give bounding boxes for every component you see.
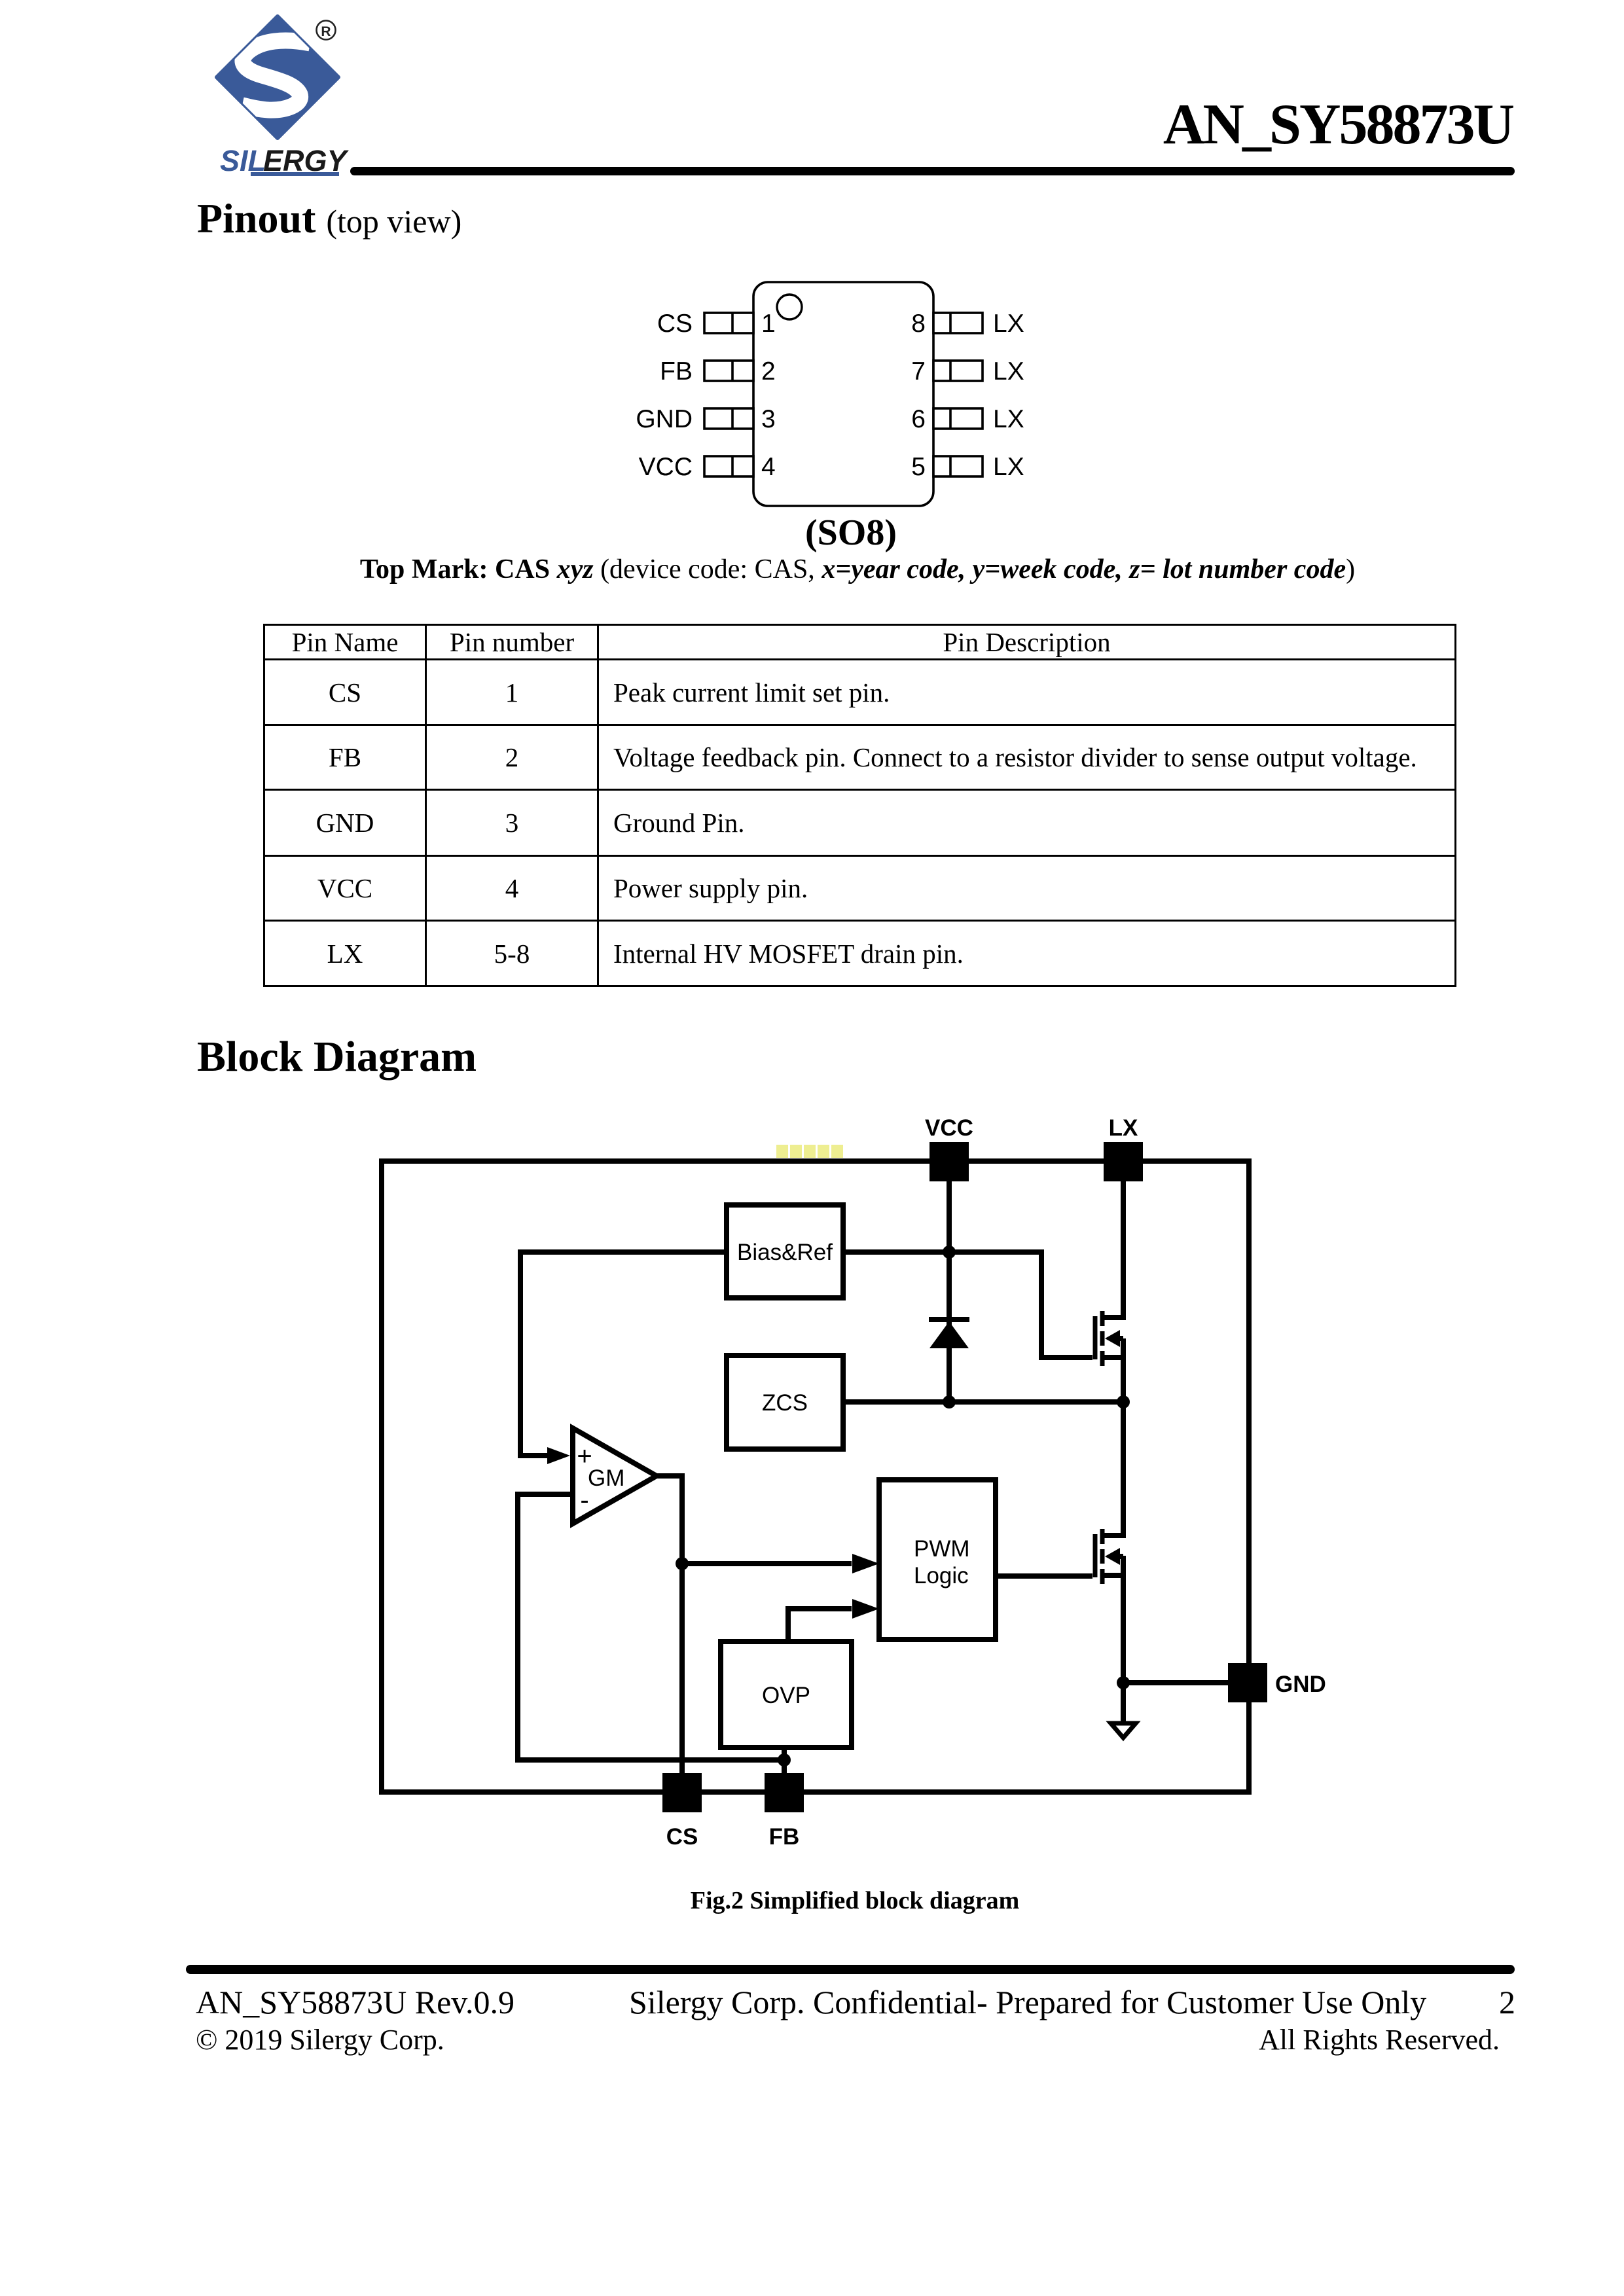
svg-text:7: 7 <box>911 357 926 386</box>
diode D1 <box>929 1319 969 1348</box>
svg-text:GND: GND <box>636 405 693 433</box>
block Bias&Ref <box>727 1205 843 1298</box>
block ZCS <box>727 1355 843 1449</box>
junction VCC / Bias&Ref line <box>943 1246 956 1259</box>
svg-text:LX: LX <box>993 405 1024 433</box>
junction diode / ZCS line <box>943 1395 956 1408</box>
svg-text:2: 2 <box>761 357 776 386</box>
document title <box>911 92 1513 158</box>
arrow into PWM input 1 <box>852 1554 879 1573</box>
svg-text:Bias&Ref: Bias&Ref <box>737 1240 833 1265</box>
pin 8 LX <box>933 313 983 333</box>
pad GND <box>1228 1663 1326 1702</box>
wire Bias&Ref input from GM+ branch <box>520 1252 727 1456</box>
MOSFET Q1 <box>1095 1311 1123 1366</box>
wire Q1 source to Q2 drain <box>1121 1338 1126 1538</box>
svg-text:FB: FB <box>660 357 693 386</box>
junction GND node <box>1117 1676 1130 1689</box>
Silergy logo <box>209 13 367 183</box>
faint watermark <box>776 1143 844 1160</box>
MOSFET Q2 <box>1095 1529 1123 1584</box>
junction GM output node <box>676 1557 689 1570</box>
svg-text:-: - <box>580 1486 588 1515</box>
wire Bias&Ref output to Q1 gate <box>843 1252 1092 1357</box>
svg-text:VCC: VCC <box>639 453 693 481</box>
svg-text:3: 3 <box>761 405 776 433</box>
IC boundary box <box>382 1161 1249 1792</box>
pin 4 VCC <box>704 456 753 476</box>
pin 5 LX <box>933 456 983 476</box>
ground symbol <box>1111 1723 1136 1738</box>
wire ZCS output <box>843 1399 1123 1405</box>
svg-text:1: 1 <box>761 310 776 338</box>
wire Q2 source to GND node <box>1121 1556 1126 1683</box>
registered trademark <box>317 21 336 40</box>
wire node to ground symbol <box>1121 1683 1126 1721</box>
wire FB node to GM - input <box>518 1494 784 1760</box>
svg-text:VCC: VCC <box>925 1115 973 1141</box>
svg-text:ZCS: ZCS <box>762 1390 808 1416</box>
block OVP <box>721 1641 852 1748</box>
svg-text:GND: GND <box>1275 1672 1326 1697</box>
figure caption <box>652 1886 1058 1915</box>
svg-text:OVP: OVP <box>762 1683 810 1708</box>
pin number labels <box>761 310 926 481</box>
svg-text:LX: LX <box>993 310 1024 338</box>
pin 1 CS <box>704 313 753 333</box>
arrow into GM + input <box>547 1447 570 1464</box>
pad VCC <box>925 1115 973 1181</box>
wire VCC vertical <box>947 1181 952 1402</box>
logo wordmark <box>220 144 350 177</box>
wire GM output to CS pad <box>657 1476 682 1776</box>
pin name labels right <box>993 310 1024 481</box>
svg-text:Logic: Logic <box>914 1563 969 1588</box>
svg-text:CS: CS <box>666 1824 698 1850</box>
svg-text:R: R <box>321 24 331 39</box>
svg-text:LX: LX <box>993 357 1024 386</box>
arrow into PWM input 2 <box>852 1599 879 1619</box>
junction FB node <box>778 1753 791 1767</box>
svg-text:8: 8 <box>911 310 926 338</box>
logo diamond <box>217 16 338 138</box>
junction ZCS line / Q1 source <box>1117 1395 1130 1408</box>
op-amp GM <box>573 1428 657 1524</box>
svg-text:FB: FB <box>769 1824 800 1850</box>
wire LX to Q1 drain <box>1121 1181 1126 1320</box>
svg-text:6: 6 <box>911 405 926 433</box>
svg-text:LX: LX <box>993 453 1024 481</box>
pin 7 LX <box>933 361 983 381</box>
pin 6 LX <box>933 408 983 429</box>
(SO8) caption <box>655 512 1047 554</box>
svg-text:PWM: PWM <box>914 1536 970 1562</box>
pin name labels left <box>636 310 693 481</box>
pin 2 FB <box>704 361 753 381</box>
block PWM Logic <box>879 1480 996 1640</box>
pad LX <box>1104 1115 1143 1181</box>
svg-text:LX: LX <box>1109 1115 1138 1141</box>
wire GM output to PWM input <box>682 1561 852 1566</box>
pad FB <box>765 1773 804 1850</box>
pin 1 indicator <box>777 295 802 319</box>
Top Mark line <box>0 554 1624 585</box>
wire PWM output to Q2 gate <box>996 1573 1092 1579</box>
wire OVP bottom to FB node <box>782 1748 787 1776</box>
pin 3 GND <box>704 408 753 429</box>
header rule <box>350 167 1515 175</box>
pad CS <box>662 1773 702 1850</box>
block diagram SVG <box>367 1106 1348 1885</box>
IC body SO8 <box>753 282 933 506</box>
pinout package drawing <box>615 272 1047 547</box>
svg-text:4: 4 <box>761 453 776 481</box>
svg-text:5: 5 <box>911 453 926 481</box>
svg-text:GM: GM <box>588 1465 624 1491</box>
wire GND node to GND pad <box>1123 1680 1229 1685</box>
wire OVP output to PWM input <box>788 1609 852 1641</box>
svg-text:CS: CS <box>657 310 693 338</box>
